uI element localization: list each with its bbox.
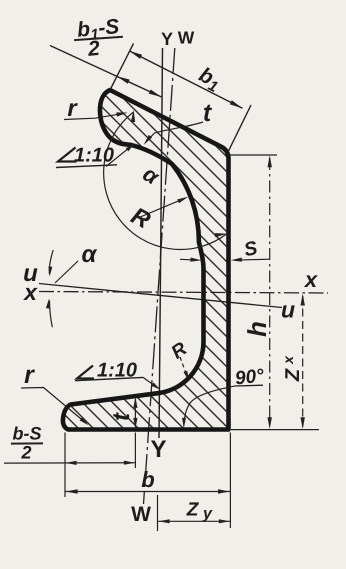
svg-text:1:10: 1:10	[97, 359, 137, 381]
svg-text:Z: Z	[186, 499, 200, 520]
svg-text:W: W	[178, 27, 195, 47]
svg-text:Z: Z	[282, 368, 304, 382]
svg-text:x: x	[22, 279, 38, 305]
svg-text:r: r	[24, 361, 35, 389]
svg-text:Y: Y	[161, 29, 173, 49]
svg-text:1:10: 1:10	[74, 144, 114, 166]
svg-text:W: W	[131, 503, 151, 526]
svg-text:h: h	[242, 321, 272, 337]
svg-text:x: x	[304, 267, 318, 292]
svg-text:t: t	[108, 412, 135, 421]
svg-text:b: b	[141, 467, 154, 492]
svg-text:α: α	[82, 241, 98, 268]
svg-text:u: u	[281, 296, 295, 322]
svg-text:2: 2	[86, 37, 101, 61]
svg-text:y: y	[202, 505, 213, 522]
svg-text:b-S: b-S	[12, 423, 41, 443]
svg-text:x: x	[280, 355, 296, 365]
svg-text:Y: Y	[150, 436, 166, 463]
svg-text:2: 2	[20, 442, 31, 462]
svg-text:90°: 90°	[234, 366, 265, 390]
